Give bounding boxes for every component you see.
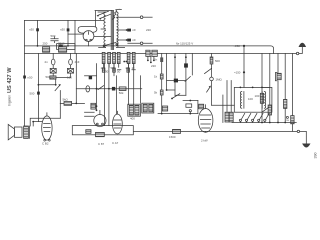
capacitor C13 <box>160 57 163 62</box>
svg-text:C 87: C 87 <box>98 142 104 146</box>
wire mains drop <box>300 131 307 144</box>
svg-text:1k: 1k <box>154 75 158 79</box>
wire left edge vertical <box>24 20 26 126</box>
node dots mid row <box>123 61 125 63</box>
resistor R18 <box>291 116 294 124</box>
IF can 2 <box>142 103 154 113</box>
resistor R14 <box>211 54 213 58</box>
resistor R11 <box>160 90 163 95</box>
trimmer capacitor C3 <box>51 37 58 43</box>
svg-text:30: 30 <box>105 70 109 74</box>
svg-text:500: 500 <box>51 34 56 38</box>
svg-text:500: 500 <box>46 75 51 79</box>
resistor R16 <box>268 105 271 115</box>
transformer T1 core <box>111 10 113 49</box>
rectifier box U1 <box>234 87 272 112</box>
svg-text:für 110/125 V: für 110/125 V <box>176 42 193 46</box>
wire vertical x278 <box>277 54 279 123</box>
resistor R8 <box>127 52 130 63</box>
wire horizontal y103.4 <box>60 102 84 104</box>
terminal P4 <box>297 130 299 132</box>
wire top stub <box>95 10 112 12</box>
svg-text:50k: 50k <box>119 91 124 95</box>
capacitor C19 <box>112 87 115 91</box>
tube V2 output left <box>42 116 52 140</box>
svg-text:400: 400 <box>130 117 135 121</box>
svg-text:1k: 1k <box>132 66 136 70</box>
svg-text:1500: 1500 <box>169 135 176 139</box>
tube V1 mixer <box>83 31 94 42</box>
svg-text:500: 500 <box>215 59 220 63</box>
title Ingelen US 427 W <box>7 67 13 106</box>
svg-text:n50: n50 <box>28 76 33 80</box>
bus A upper horizontal <box>25 46 274 54</box>
wire vertical x161.7 <box>161 54 163 114</box>
svg-text:250: 250 <box>43 42 48 46</box>
svg-text:100: 100 <box>67 76 72 80</box>
svg-text:Ingelen: Ingelen <box>8 95 12 106</box>
wire stubs left of V3 <box>85 112 95 116</box>
potentiometer VR1 <box>211 68 213 77</box>
switch S4 <box>172 94 180 99</box>
svg-text:5k: 5k <box>154 91 158 95</box>
capacitor C14 <box>174 79 178 83</box>
wire stubs below resistors <box>104 64 134 68</box>
wire horizontal y113.6 <box>158 113 198 115</box>
wire vertical x60.3 upper <box>59 103 61 118</box>
coil L1 on bus <box>43 47 50 52</box>
resistor R2 <box>50 76 56 79</box>
speaker body <box>14 127 22 137</box>
wire horizontal y84.8 <box>38 84 55 86</box>
capacitor C7 <box>37 92 40 95</box>
wire horizontal y122.5 <box>232 122 296 124</box>
capacitor C15 <box>184 63 188 67</box>
wire bottom bus <box>134 130 298 132</box>
resistor R10 <box>160 74 163 79</box>
terminal P3 <box>296 52 298 54</box>
wire horizontal y105.2 <box>212 104 235 106</box>
svg-text:n30: n30 <box>60 28 65 32</box>
potentiometer arrow P <box>55 85 60 91</box>
arrow mains up <box>299 43 307 47</box>
svg-text:≈a: ≈a <box>286 118 290 122</box>
svg-text:nF: nF <box>133 28 137 32</box>
resistor R20 <box>225 112 229 122</box>
wires left of box <box>223 81 231 123</box>
wire vertical x185.9 <box>185 54 187 96</box>
resistor R4 <box>102 52 105 63</box>
wire <box>56 77 71 79</box>
switch S6 <box>98 86 104 90</box>
transformer T1 secondary winding <box>117 12 118 48</box>
driver bracket <box>277 73 281 79</box>
wire vertical x95.5 <box>95 11 97 27</box>
transformer T1 secondary taps <box>117 17 141 47</box>
capacitor C9 oval <box>52 54 54 69</box>
wire vertical x55.7 <box>55 79 57 85</box>
wire vertical x166.6 <box>166 54 168 91</box>
choke coil Lb <box>264 92 265 109</box>
capacitor C16 <box>186 104 192 107</box>
svg-text:1MΩ: 1MΩ <box>216 77 223 81</box>
terminal P2 <box>140 42 143 45</box>
wire vertical x175 <box>174 54 176 96</box>
svg-text:50k: 50k <box>111 66 116 70</box>
speaker cone <box>8 124 14 139</box>
wire horizontal y87.4 stub <box>262 86 270 88</box>
IF can 1 <box>128 104 141 116</box>
capacitor C6 <box>127 39 131 42</box>
tube V4 <box>113 114 123 134</box>
wire vertical x244 <box>243 46 245 88</box>
svg-text:100: 100 <box>248 97 253 101</box>
tube V5 output right <box>198 109 213 133</box>
heater box <box>72 126 133 135</box>
wire top edge of input box <box>25 19 105 21</box>
switch row contacts <box>239 119 241 121</box>
transformer T1 primary winding <box>104 12 106 29</box>
wire mains stub up <box>299 47 302 54</box>
svg-text:2n: 2n <box>45 60 49 64</box>
switch contact <box>189 110 191 112</box>
svg-text:C A7: C A7 <box>112 141 119 145</box>
tube V3 <box>94 115 106 127</box>
capacitor C8 on left edge <box>23 76 26 79</box>
wire horizontal y95.3 <box>175 94 186 96</box>
wire vertical x76.3 <box>75 54 77 104</box>
wire terminal stub <box>143 16 152 18</box>
capacitor block below mixer <box>57 44 75 50</box>
resistor R3 <box>64 102 72 106</box>
switch S1 arrowheads <box>97 15 101 19</box>
svg-text:n30: n30 <box>29 28 34 32</box>
svg-text:5kΩ: 5kΩ <box>63 98 69 102</box>
coil L2 on bus <box>59 47 67 52</box>
output transformer T2 <box>24 126 29 138</box>
wire cathode lead <box>88 41 90 46</box>
svg-text:500: 500 <box>30 92 35 96</box>
transformer T1 taps <box>98 12 106 47</box>
capacitor C5 <box>127 29 131 32</box>
switch S3 <box>185 77 190 82</box>
switch S5 <box>205 68 212 73</box>
wire horizontal y100.5 <box>183 100 198 102</box>
wire terminal stub <box>128 42 152 44</box>
wire vertical x269.8 <box>269 54 271 123</box>
wire grid lead <box>68 33 83 35</box>
switch S7 <box>262 107 269 112</box>
capacitor C4 body <box>59 45 63 49</box>
svg-text:2500: 2500 <box>58 42 65 46</box>
selector stubs <box>148 56 154 62</box>
resistor R7 <box>117 52 120 63</box>
capacitor C2 lead <box>67 20 69 46</box>
switch S2 on bus <box>103 45 105 47</box>
arrow mains down <box>302 144 310 148</box>
resistor R13 <box>199 104 204 109</box>
bus B lower horizontal <box>25 53 297 55</box>
switch S1 mains arrows <box>97 11 111 19</box>
svg-text:nF: nF <box>133 38 137 42</box>
svg-text:US 427 W: US 427 W <box>7 67 13 93</box>
op coil loop of mixer <box>78 27 97 33</box>
wire vertical x60.3 <box>59 91 61 104</box>
wire stub trimmers <box>53 73 70 77</box>
selector block boxes <box>146 50 150 56</box>
resistor R19 on bottom bus <box>173 129 181 133</box>
wire vertical x38.4 <box>37 54 39 122</box>
capacitor C11 oval <box>70 54 72 69</box>
resistor R24 <box>86 130 91 134</box>
capacitor C17 <box>89 76 92 79</box>
svg-text:100: 100 <box>255 94 260 98</box>
resistor R21 <box>229 112 233 122</box>
svg-text:4nF: 4nF <box>75 60 80 64</box>
wire vertical x75 <box>74 20 76 53</box>
wire horizontal y80.5 <box>167 80 186 82</box>
svg-text:≈150: ≈150 <box>234 71 241 75</box>
resistor R23 <box>119 87 126 91</box>
resistor R9 <box>132 52 135 63</box>
tube V1 pins <box>86 39 88 41</box>
svg-text:2n: 2n <box>154 58 158 62</box>
wire verticals middle <box>97 64 141 126</box>
capacitor C1 <box>36 28 39 31</box>
resistor R17 <box>284 99 287 108</box>
wire horizontal y88.7 <box>76 88 142 90</box>
svg-text:2 kW: 2 kW <box>201 139 208 143</box>
wire horizontal y90 <box>167 89 175 91</box>
wire plate lead <box>94 36 111 38</box>
capacitor C18 oval <box>86 86 90 92</box>
wire vertical x262 <box>261 54 263 123</box>
wire horizontal y75.8 <box>85 75 97 77</box>
svg-text:220: 220 <box>146 28 151 32</box>
resistor R5 <box>108 52 111 63</box>
svg-text:390: 390 <box>314 153 318 159</box>
resistor R15 <box>260 93 263 103</box>
wire vertical x285.2 <box>284 54 286 123</box>
resistor R22 <box>96 132 105 136</box>
capacitor C2 <box>67 28 70 31</box>
wire vertical x292.4 <box>291 54 293 132</box>
resistor R6 <box>113 52 116 63</box>
svg-text:C B2: C B2 <box>42 142 49 146</box>
choke coil La <box>240 92 241 109</box>
resistor R1 zigzag <box>113 9 122 19</box>
trimmer C12 <box>68 69 74 74</box>
svg-text:50: 50 <box>117 70 121 74</box>
terminal P1 <box>140 16 143 19</box>
wire vertical x197.9 <box>197 101 199 114</box>
wire speaker links <box>30 118 60 126</box>
svg-text:≈250: ≈250 <box>234 44 241 48</box>
trimmer C10 <box>50 69 56 74</box>
resistor R12 <box>162 106 167 111</box>
trimmer row small <box>102 68 105 72</box>
svg-text:220: 220 <box>151 64 156 68</box>
capacitor C1 lead <box>37 20 39 46</box>
coil L3 <box>91 103 96 109</box>
wire vertical x192.3 <box>191 54 193 76</box>
